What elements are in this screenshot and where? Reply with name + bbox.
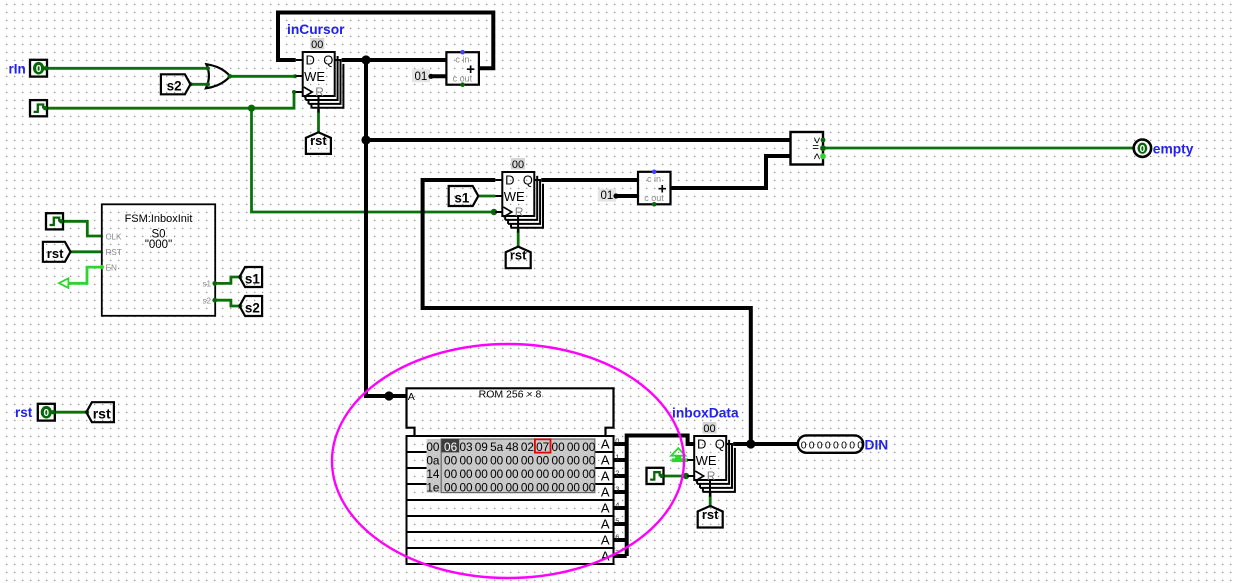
output empty [1134,140,1151,157]
svg-text:inboxData: inboxData [672,406,739,421]
svg-text:00: 00 [703,423,715,435]
svg-text:48: 48 [505,440,519,454]
svg-text:00: 00 [505,467,519,481]
svg-text:00: 00 [444,467,458,481]
svg-text:CLK: CLK [106,232,122,241]
svg-text:14: 14 [426,467,440,481]
svg-text:rst: rst [47,246,64,261]
wire register2 R to rst tunnel [517,229,520,247]
svg-text:0: 0 [809,440,815,451]
wire rst input to rst tunnel [55,411,87,414]
junction at inboxData clock [683,473,689,479]
svg-text:RST: RST [106,248,122,257]
clock input FSM clock [46,213,63,229]
svg-text:09: 09 [475,440,488,454]
svg-text:A: A [601,469,610,484]
svg-text:0a: 0a [426,454,440,468]
bus inboxData Q to DIN output [733,442,798,446]
wire FSM clock input [63,221,102,236]
svg-text:+: + [658,181,667,198]
constant 01 (adder2) [598,189,616,203]
svg-text:00: 00 [521,454,535,468]
svg-text:00: 00 [521,480,535,494]
ROM row 4 [407,500,614,516]
svg-text:3: 3 [615,484,619,493]
tunnel rst (below register2) [506,247,531,269]
svg-text:0: 0 [849,440,855,451]
comparator U4 [791,132,824,165]
or gate U1 [206,64,230,88]
svg-text:00: 00 [490,467,504,481]
svg-text:WE: WE [304,69,325,84]
svg-text:1e: 1e [426,480,440,494]
svg-text:00: 00 [582,454,596,468]
adder U3 [638,170,671,207]
svg-text:Q: Q [715,437,725,452]
tunnel rst (below inboxData) [698,506,723,528]
svg-text:rst: rst [310,133,327,148]
svg-text:0: 0 [825,440,831,451]
svg-text:R: R [515,205,524,219]
ROM row 1 [407,452,614,468]
svg-text:rIn: rIn [9,61,26,76]
svg-text:01: 01 [601,190,614,202]
wire clock branch down to second register row [252,108,496,212]
wire clock to inCursor C, with branch down [47,92,296,108]
junction on clock wire [248,105,255,112]
junction at inCursor Q [361,55,370,64]
svg-text:+: + [466,61,475,78]
ROM row 0 [407,436,614,452]
bus ROM output row 2 stub [614,474,627,478]
wire OR output to inCursor WE [230,75,296,78]
svg-text:5a: 5a [490,440,504,454]
value label 00 [703,422,717,435]
ROM row 6 [407,532,614,548]
svg-text:00: 00 [536,454,550,468]
svg-text:s1: s1 [245,271,261,286]
ROM row 5 [407,516,614,532]
svg-text:03: 03 [459,440,473,454]
value label 00 [511,158,525,171]
svg-text:00: 00 [552,454,566,468]
wire rst tunnel to FSM RST [71,250,102,253]
svg-text:4: 4 [615,500,619,509]
svg-text:00: 00 [490,454,504,468]
svg-text:s2: s2 [245,300,260,315]
svg-text:00: 00 [444,480,458,494]
svg-text:2: 2 [615,468,619,477]
svg-text:00: 00 [505,454,519,468]
wire comparator equal-output to empty [823,147,1134,150]
svg-text:inCursor: inCursor [287,22,345,37]
bus ROM output row 5 stub [614,522,627,526]
svg-text:00: 00 [582,440,596,454]
svg-text:Q: Q [323,53,333,68]
svg-text:R: R [315,85,324,99]
bus feedback loop adder1 output to inCursor D [278,13,493,69]
wire inCursor R to rst tunnel [317,109,320,133]
svg-text:WE: WE [696,453,717,468]
bus constant 01 to adder1 input b [430,74,446,78]
svg-text:00: 00 [475,467,489,481]
svg-text:00: 00 [536,480,550,494]
svg-text:00: 00 [444,454,458,468]
svg-text:D: D [697,437,706,452]
svg-text:A: A [601,437,610,452]
wire s1 tunnel to register2 WE [478,195,495,198]
svg-text:00: 00 [475,480,489,494]
tunnel s2 (FSM output) [240,296,263,316]
bus adder2 output to comparator input b [671,156,791,188]
svg-text:0: 0 [615,436,619,445]
svg-text:1: 1 [615,452,619,461]
svg-text:00: 00 [426,440,440,454]
svg-text:02: 02 [521,440,534,454]
tunnel rst (named net) [86,402,114,422]
junction at register2 clock [491,209,497,215]
svg-text:00: 00 [567,467,581,481]
FSM InboxInit box [102,204,215,315]
bus register2 Q to adder2 input a [541,178,638,182]
svg-text:D: D [505,173,514,188]
bus junction to comparator input a [366,138,791,142]
junction on ROM address wire [384,391,393,400]
svg-text:00: 00 [567,440,581,454]
svg-text:0: 0 [857,440,863,451]
ROM data table [426,439,595,494]
tunnel s1 (FSM output) [240,267,263,287]
svg-text:00: 00 [582,467,596,481]
tunnel s1 (to register2 WE) [449,186,479,206]
svg-text:0: 0 [817,440,823,451]
svg-text:0: 0 [1140,144,1146,155]
svg-text:empty: empty [1153,141,1194,156]
svg-text:0: 0 [833,440,839,451]
input rst [38,404,56,421]
bus ROM outputs to inboxData D [627,436,695,557]
svg-text:FSM:InboxInit: FSM:InboxInit [125,213,193,225]
svg-text:5: 5 [615,516,619,525]
wire rIn to OR gate [47,67,209,70]
bus inCursor Q to adder1 input a [342,58,447,62]
svg-text:01: 01 [415,71,428,83]
svg-text:00: 00 [459,454,473,468]
svg-text:0: 0 [44,408,50,419]
svg-text:0: 0 [36,64,42,75]
register inCursor [296,52,344,113]
ROM row 3 [407,484,614,500]
svg-text:A: A [408,391,415,403]
svg-text:rst: rst [510,248,527,263]
svg-text:s2: s2 [167,79,182,94]
adder U2 [446,50,479,87]
svg-text:06: 06 [444,440,458,454]
svg-text:00: 00 [552,440,566,454]
register register2 [495,172,543,233]
tunnel rst (below inCursor) [306,132,331,154]
svg-text:0: 0 [801,440,807,451]
wire inboxData R to rst tunnel [709,493,712,506]
value label 00 [310,38,324,51]
svg-text:ROM 256 × 8: ROM 256 × 8 [479,389,542,401]
svg-text:EN: EN [106,263,117,272]
svg-text:R: R [707,469,716,483]
bus ROM output row 4 stub [614,506,627,510]
input rIn [30,60,48,77]
svg-text:A: A [601,517,610,532]
svg-text:00: 00 [521,467,535,481]
svg-text:00: 00 [459,467,473,481]
ROM 256x8 body [407,388,614,436]
svg-text:00: 00 [512,159,524,171]
bus constant 01 to adder2 input b [615,194,638,198]
register inboxData [687,436,735,497]
svg-text:00: 00 [582,480,596,494]
svg-text:00: 00 [567,480,581,494]
tunnel s2 (to OR gate) [161,74,191,94]
wire FSM s1 output to tunnel [215,277,239,283]
svg-text:rst: rst [15,405,33,420]
floating driver marker (inboxData WE) [671,448,694,462]
junction at inboxData Q [746,439,755,448]
svg-text:00: 00 [311,39,323,51]
svg-text:WE: WE [504,189,525,204]
bus ROM output row 1 stub [614,458,627,462]
constant 01 (adder1) [412,69,430,83]
svg-text:00: 00 [490,480,504,494]
svg-text:00: 00 [567,454,581,468]
svg-text:6: 6 [615,532,619,541]
tunnel rst (to FSM RST) [43,242,71,262]
wire s2 tunnel to OR gate [191,83,210,86]
bus ROM output row 6 stub [614,538,627,542]
svg-text:s2: s2 [203,296,212,305]
clock input main clock [30,100,47,116]
svg-text:s1: s1 [454,190,470,205]
bus ROM output row 7 stub [614,554,627,558]
svg-text:rst: rst [93,406,111,422]
svg-text:00: 00 [552,480,566,494]
svg-text:rst: rst [702,507,719,522]
clock input inboxData clock [647,468,664,484]
svg-text:0: 0 [841,440,847,451]
svg-text:D: D [306,53,315,68]
svg-text:00: 00 [552,467,566,481]
output DIN [798,435,864,452]
svg-text:s1: s1 [203,280,212,289]
ROM row 7 [407,548,614,564]
wire clock to inboxData C [663,475,687,478]
junction at comparator branch [361,135,370,144]
bus ROM output row 3 stub [614,490,627,494]
floating input marker (FSM EN) [59,278,68,288]
ROM row 2 [407,468,614,484]
svg-text:07: 07 [536,440,549,454]
svg-text:Q: Q [523,173,533,188]
highlight ellipse [332,344,684,578]
svg-text:A: A [601,453,610,468]
svg-text:00: 00 [536,467,550,481]
svg-text:A: A [601,533,610,548]
svg-text:A: A [601,501,610,516]
svg-text:A: A [601,485,610,500]
bus main vertical from inCursor Q down to ROM A [366,60,407,396]
svg-text:00: 00 [475,454,489,468]
svg-text:00: 00 [459,480,473,494]
wire FSM EN (lime, floating) [69,267,102,283]
svg-text:00: 00 [505,480,519,494]
svg-text:"000": "000" [145,239,172,251]
bus feedback loop inboxData Q up to register2 D [423,180,751,444]
wire FSM s2 output to tunnel [215,300,239,306]
bus ROM output row 0 stub [614,442,627,446]
svg-text:DIN: DIN [865,437,889,452]
